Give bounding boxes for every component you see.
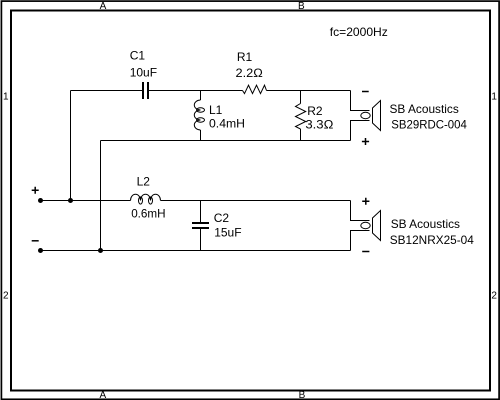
- svg-text:0.4mH: 0.4mH: [209, 117, 245, 131]
- svg-text:L1: L1: [209, 103, 223, 117]
- svg-text:SB Acoustics: SB Acoustics: [390, 102, 459, 116]
- svg-text:2: 2: [3, 291, 9, 302]
- svg-text:2.2Ω: 2.2Ω: [236, 66, 263, 80]
- svg-text:1: 1: [491, 92, 497, 103]
- svg-text:A: A: [100, 1, 107, 12]
- svg-text:15uF: 15uF: [214, 226, 241, 240]
- svg-text:L2: L2: [137, 175, 151, 189]
- svg-text:3.3Ω: 3.3Ω: [305, 118, 333, 132]
- svg-text:A: A: [99, 390, 106, 400]
- svg-text:10uF: 10uF: [130, 66, 157, 80]
- svg-text:SB29RDC-004: SB29RDC-004: [391, 117, 467, 131]
- svg-text:R1: R1: [237, 50, 253, 64]
- svg-text:0.6mH: 0.6mH: [131, 207, 165, 221]
- svg-text:1: 1: [3, 92, 9, 103]
- svg-text:SB12NRX25-04: SB12NRX25-04: [390, 233, 474, 247]
- svg-text:2: 2: [491, 291, 497, 302]
- svg-text:C1: C1: [130, 49, 146, 63]
- svg-text:R2: R2: [307, 104, 323, 118]
- svg-text:B: B: [298, 1, 305, 12]
- svg-text:SB Acoustics: SB Acoustics: [391, 217, 460, 231]
- svg-text:fc=2000Hz: fc=2000Hz: [330, 25, 388, 39]
- svg-text:B: B: [299, 390, 306, 400]
- svg-text:C2: C2: [214, 211, 230, 225]
